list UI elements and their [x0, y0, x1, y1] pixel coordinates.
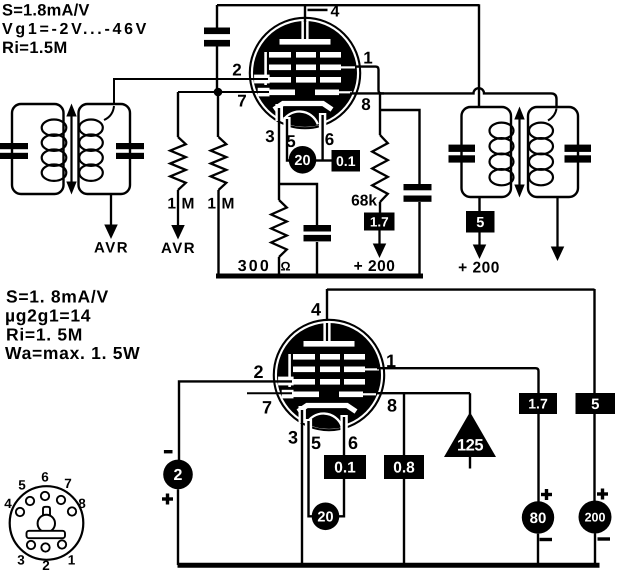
tube V1 envelope and electrodes — [250, 18, 360, 150]
wire pin 5 to circle 20 — [287, 119, 290, 161]
svg-text:1: 1 — [363, 49, 372, 68]
T2 secondary return arrow — [556, 197, 558, 249]
svg-text:AVR: AVR — [94, 240, 129, 257]
svg-text:6: 6 — [41, 470, 49, 485]
capacitor C7 (T2 secondary tuning) — [565, 145, 592, 163]
svg-text:7: 7 — [262, 398, 272, 418]
wire pin 8 node (V2) — [376, 392, 470, 394]
label 1M (R2) — [207, 196, 234, 213]
svg-text:300: 300 — [238, 258, 271, 275]
svg-text:5: 5 — [18, 478, 26, 493]
svg-text:4: 4 — [311, 300, 321, 320]
svg-text:1.7: 1.7 — [370, 214, 389, 229]
wire box 5 to electrolytic 200 — [593, 414, 595, 501]
svg-text:0.1: 0.1 — [336, 153, 356, 169]
svg-text:5: 5 — [286, 132, 295, 151]
svg-text:0.1: 0.1 — [334, 460, 356, 477]
current box 0.1 (V2) — [324, 455, 366, 479]
wire pin 4 to top bus — [304, 5, 306, 22]
svg-text:2: 2 — [42, 558, 50, 573]
svg-text:2: 2 — [232, 61, 241, 80]
wire C1 to grid junction — [216, 47, 218, 93]
svg-text:20: 20 — [294, 153, 310, 169]
svg-text:80: 80 — [530, 510, 547, 527]
wire battery to bottom bus — [177, 489, 179, 565]
socket pin 6 — [41, 492, 49, 500]
wire pin 6 down through box 0.1 (V2) — [339, 417, 344, 516]
resistor R4 68k — [372, 93, 388, 213]
wire screen branch through box 0.8 — [403, 393, 405, 565]
svg-text:S=1. 8mA/V: S=1. 8mA/V — [6, 287, 109, 307]
svg-text:2: 2 — [174, 467, 183, 484]
svg-text:Ω: Ω — [280, 260, 290, 274]
wire T2 primary bottom — [478, 197, 480, 212]
wire cathode bypass branch — [279, 184, 317, 226]
svg-text:M: M — [222, 196, 235, 213]
node junction pin7/1M — [214, 88, 223, 97]
svg-text:1: 1 — [207, 196, 216, 213]
wire 200 to bottom bus — [594, 534, 596, 566]
svg-text:6: 6 — [325, 130, 334, 149]
indicator circle 20 (V2 pin5) — [312, 503, 340, 531]
wire C5 to ground bus — [418, 202, 420, 274]
tube V2 envelope and electrodes — [274, 320, 384, 452]
current box 0.8 — [384, 455, 424, 479]
loudspeaker triangle 125 — [444, 393, 496, 468]
supply arrow +200 (T2) — [478, 233, 480, 247]
pin 4 label with dash — [308, 4, 340, 21]
svg-text:3: 3 — [17, 553, 25, 568]
svg-text:8: 8 — [387, 396, 397, 416]
svg-text:5: 5 — [311, 433, 321, 453]
minus label (200) — [598, 537, 611, 540]
socket pin 8 — [68, 507, 76, 515]
svg-text:Vg1=-2V...-46V: Vg1=-2V...-46V — [2, 21, 149, 38]
label 300 ohm — [238, 258, 291, 275]
label 1M (R1) — [167, 196, 194, 213]
wire pin 5 to circle 20 (V2) — [309, 421, 313, 516]
svg-text:Wa=max. 1. 5W: Wa=max. 1. 5W — [5, 343, 140, 363]
resistor R1 1M — [170, 92, 186, 190]
svg-text:125: 125 — [457, 437, 483, 455]
svg-text:7: 7 — [64, 476, 72, 491]
AVR arrow under R1 — [177, 190, 179, 227]
electrolytic 200 — [579, 501, 612, 534]
pin 5 halo (V2) — [305, 419, 312, 435]
capacitor C5 decoupling — [404, 184, 432, 202]
svg-text:3: 3 — [288, 428, 298, 448]
wire pin 7 — [178, 91, 269, 93]
wire pin 2 (g1) to T1 secondary — [114, 79, 268, 105]
wire bus right branch to box 5 — [593, 289, 595, 394]
wire pin 4 (V2) to bus — [326, 289, 328, 324]
svg-text:8: 8 — [361, 95, 370, 114]
pin 6 halo (V2) — [340, 415, 347, 433]
wire decoupling branch — [380, 110, 420, 185]
svg-text:M: M — [182, 196, 195, 213]
svg-text:1: 1 — [167, 196, 176, 213]
svg-text:0.8: 0.8 — [393, 460, 415, 477]
transformer T2 secondary winding — [528, 107, 578, 197]
bottom bus — [178, 563, 600, 568]
socket pin 4 — [16, 508, 24, 516]
svg-text:2: 2 — [253, 362, 263, 382]
capacitor C2 (T1 primary tuning) — [0, 143, 28, 159]
T2 coupling arrow — [514, 107, 524, 198]
svg-text:3: 3 — [265, 127, 274, 146]
svg-text:+ 200: + 200 — [458, 260, 500, 277]
wire anode line to T2 secondary with hop — [350, 88, 557, 107]
wire pin 6 down — [321, 115, 323, 161]
svg-text:1.7: 1.7 — [528, 396, 548, 412]
wire lower top bus — [327, 288, 595, 290]
svg-text:5: 5 — [476, 215, 484, 231]
wire pin 7 stub (V2) — [247, 392, 292, 394]
pin 3 halo (V2) — [299, 406, 306, 423]
svg-text:4: 4 — [4, 496, 12, 511]
svg-text:Ri=1.5M: Ri=1.5M — [2, 39, 68, 57]
wire box 1.7 to electrolytic 80 — [537, 414, 539, 502]
plus label (80) — [541, 489, 552, 500]
socket pin 3 — [27, 541, 35, 549]
text V2 parameters — [5, 287, 140, 364]
resistor R3 300 ohm — [271, 200, 287, 274]
wire C4 to ground bus — [316, 242, 318, 274]
current box 1.7 — [364, 213, 395, 231]
text V1 parameters — [2, 2, 149, 58]
ground bus top circuit — [216, 274, 423, 279]
wire pin 2 (V2 g1) to bias battery — [179, 381, 292, 460]
socket pin 5 — [26, 497, 34, 505]
wire top bus — [217, 4, 479, 6]
wire top bus to T2 primary — [478, 4, 480, 107]
supply arrow +200 (anode) — [378, 231, 380, 246]
battery minus label — [164, 450, 173, 453]
wire R2 to ground bus — [217, 190, 219, 274]
plus label (200) — [597, 489, 608, 500]
wire pin 1 (V2 anode) to box 1.7 — [377, 368, 539, 394]
svg-text:Ri=1. 5M: Ri=1. 5M — [6, 325, 83, 345]
svg-text:6: 6 — [348, 433, 358, 453]
svg-text:µg2g1=14: µg2g1=14 — [5, 306, 91, 326]
svg-text:AVR: AVR — [161, 240, 196, 257]
battery plus label — [162, 494, 173, 505]
indicator circle 20 (pin 5) — [289, 146, 317, 174]
capacitor C6 (T2 primary tuning) — [449, 145, 476, 163]
pin 5 halo — [283, 117, 290, 133]
pin 3 halo — [275, 104, 283, 121]
svg-text:20: 20 — [317, 510, 333, 526]
svg-text:S=1.8mA/V: S=1.8mA/V — [2, 2, 90, 20]
current box 1.7 (V2) — [519, 393, 557, 414]
current box 5 — [466, 211, 495, 233]
svg-text:5: 5 — [591, 396, 599, 413]
svg-text:4: 4 — [331, 4, 340, 21]
capacitor C3 (T1 secondary tuning) — [116, 143, 144, 159]
wire pin 3 (cathode) down — [278, 108, 280, 200]
minus label (80) — [540, 538, 553, 541]
socket pin 2 — [41, 543, 49, 551]
socket key — [38, 507, 55, 532]
wire pin 3 (V2 cathode) to bus — [301, 410, 303, 565]
svg-text:+ 200: + 200 — [354, 258, 396, 275]
socket pin 7 — [57, 496, 65, 504]
svg-text:8: 8 — [78, 496, 86, 511]
wire circle 20 to box 0.1 — [316, 159, 332, 161]
electrolytic 80 — [522, 501, 554, 533]
current box 5 (V2) — [576, 393, 616, 414]
transformer T2 primary winding — [462, 107, 514, 197]
transformer T1 primary winding — [12, 104, 66, 194]
current box 0.1 — [332, 150, 361, 172]
socket base outline — [10, 486, 84, 560]
wire top bus to C1 — [216, 5, 218, 28]
capacitor C1 — [204, 28, 230, 47]
svg-text:68k: 68k — [351, 193, 377, 210]
wire T1 secondary to AVR arrow — [110, 194, 112, 227]
capacitor C4 cathode bypass — [304, 225, 332, 241]
pin 6 halo — [319, 113, 326, 131]
bias battery 2V — [163, 460, 193, 490]
socket pin 1 — [58, 540, 66, 548]
svg-text:200: 200 — [585, 511, 606, 525]
transformer T1 secondary winding — [79, 104, 131, 194]
svg-text:7: 7 — [237, 92, 246, 111]
socket slot — [27, 531, 66, 538]
resistor R2 1M — [211, 92, 227, 190]
T1 coupling arrow — [66, 104, 76, 195]
wire pin 1 to anode node — [356, 67, 385, 94]
wire 80 to bottom bus — [537, 534, 539, 565]
svg-text:1: 1 — [68, 553, 76, 568]
